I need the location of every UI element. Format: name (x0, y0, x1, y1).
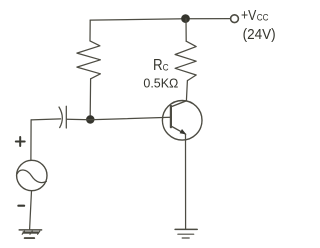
wire emitter to ground (185, 134, 187, 229)
svg-text:R: R (153, 57, 163, 74)
label RC (153, 57, 169, 74)
label + (source polarity plus) (16, 137, 25, 146)
label +VCC (241, 8, 269, 24)
label - (source polarity minus) (18, 205, 24, 207)
transistor (NPN) (162, 101, 202, 141)
node A (base/capacitor junction dot) (86, 115, 95, 124)
svg-text:(24V): (24V) (243, 27, 276, 43)
resistor RC (175, 19, 196, 101)
svg-text:CC: CC (257, 13, 269, 23)
resistor (base bias, left) (77, 20, 101, 115)
ground (left, earth hatched) (19, 230, 41, 238)
svg-text:0.5KΩ: 0.5KΩ (143, 77, 178, 91)
svg-text:+V: +V (241, 8, 257, 24)
label 0.5Kohm (143, 77, 178, 91)
capacitor (input coupling) (31, 106, 171, 128)
svg-text:C: C (163, 62, 170, 72)
ground (right, three-bar) (175, 229, 197, 238)
node B (collector rail junction dot) (181, 14, 190, 23)
ac source (input signal) (17, 120, 47, 230)
wire top rail (90, 19, 230, 21)
label (24V) (243, 27, 276, 43)
terminal +VCC (open circle) (231, 15, 239, 23)
